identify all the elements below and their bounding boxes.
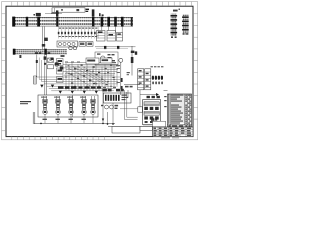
zone ticks bottom edge <box>12 137 105 140</box>
arrow on drop <box>102 119 104 122</box>
metering panel box <box>57 41 78 47</box>
charger winding row 1 <box>144 102 159 106</box>
bus A junction bar 4 <box>92 17 94 27</box>
drop cluster box 2 <box>107 31 116 42</box>
drops to ground run <box>103 90 128 124</box>
BOM description text dashes <box>171 95 184 124</box>
switch symbol S2 above bus <box>56 10 58 16</box>
diode blob row 2 <box>152 81 163 84</box>
drop cluster box 3 <box>117 33 123 42</box>
feeder drops bus A right section <box>102 27 122 33</box>
control mesh verticals <box>66 62 117 91</box>
ground run horizontal <box>34 122 115 124</box>
junction dots on ground run <box>40 123 114 125</box>
small marks above title block <box>151 118 157 121</box>
text marks below wire <box>125 86 133 88</box>
zone ticks left edge <box>2 14 6 131</box>
marks above charger box <box>147 96 160 98</box>
charger dark row 2 <box>144 116 158 119</box>
bus A junction bar 2 <box>37 17 40 27</box>
left feeder column small boxes <box>57 59 64 83</box>
zone ticks right edge <box>193 14 198 119</box>
incoming switch symbol S1 above bus <box>33 13 40 16</box>
bus A junction bar 1 <box>26 17 28 27</box>
starter unit 3 <box>69 96 74 114</box>
revision box 2 <box>140 126 153 130</box>
bus A junction bar 8 <box>121 17 124 27</box>
bus B (second busbar) <box>13 49 67 54</box>
components below aux panel <box>105 105 114 109</box>
drop cluster box 1 <box>97 31 106 42</box>
bus B end bar left <box>13 49 16 55</box>
right column drop <box>120 62 122 95</box>
bus A junction bar 6 <box>107 17 110 27</box>
feeder drop pair from bus A <box>43 27 45 50</box>
feeder chain below bus B <box>37 55 47 96</box>
mark inside label box <box>61 9 63 10</box>
label text right of box <box>86 9 89 12</box>
tiny labels left of column <box>117 68 120 83</box>
bus A (main MCC busbar) <box>13 17 134 26</box>
unit text labels <box>41 97 86 98</box>
feeder wire down to charger <box>131 46 133 76</box>
diagonal wire bundle in mesh <box>66 66 108 87</box>
fuse on right column <box>120 78 122 82</box>
wire run y46.8 <box>95 46 136 48</box>
title block <box>153 127 194 137</box>
title block text dashes <box>153 128 191 136</box>
unit motor marks <box>44 111 95 113</box>
CT cluster right of bus B <box>69 42 93 50</box>
right end component <box>131 51 137 55</box>
relay boxes in mesh <box>86 58 112 64</box>
wire to table <box>164 89 168 91</box>
charger bottom marks <box>145 121 159 123</box>
contact triangles <box>40 85 98 94</box>
comb text row 2 <box>59 35 98 38</box>
mesh bottom labels right <box>103 89 124 92</box>
white note box left of BOM <box>153 121 166 127</box>
mesh small text marks <box>65 62 120 91</box>
BOM table <box>168 94 192 127</box>
charger dark row 1 <box>144 107 158 110</box>
dark label text row in mesh <box>58 86 101 88</box>
instrument box <box>95 52 118 65</box>
aux panel box right of starters <box>104 93 132 103</box>
text below charger <box>143 126 152 127</box>
tiny print below frame <box>161 136 179 139</box>
coil symbol left <box>34 76 37 84</box>
switch symbol S3 above bus <box>92 9 95 16</box>
label box above bus A <box>52 8 85 12</box>
cable labels below box <box>43 119 86 120</box>
wire run left of charger <box>124 83 140 85</box>
bus A junction bar 3 <box>56 17 58 27</box>
fuse marks on drop pair <box>44 38 48 41</box>
blob on wire 1 <box>104 46 106 49</box>
rectifier stack columns <box>138 69 151 90</box>
small marks above bus right <box>99 13 104 16</box>
bus A end bar left <box>12 17 15 27</box>
control mesh horizontals dense <box>62 63 119 76</box>
comb fuse marks <box>58 32 96 34</box>
light wire y48.6 <box>96 48 128 50</box>
BOM row number column marks <box>168 95 169 124</box>
chain fuse <box>44 56 47 59</box>
diode blob row 1 <box>152 76 163 80</box>
BOM header row <box>168 125 192 127</box>
starter unit 5 <box>91 96 96 114</box>
mesh junction dots <box>65 71 114 87</box>
starter units outer box <box>38 95 98 117</box>
comb text row 1 <box>59 28 97 29</box>
isolator on feeder <box>131 57 134 63</box>
charger winding row 2 <box>144 111 159 115</box>
blob on wire 2 <box>117 46 119 49</box>
terminal row upper right <box>151 66 164 67</box>
instrument circle <box>101 56 105 60</box>
instrument marks <box>97 53 115 61</box>
bus A junction bar 7 <box>114 17 117 27</box>
underline below label box <box>45 12 62 14</box>
riser bus R2 (top right vertical) <box>182 15 189 35</box>
mesh scattered component marks <box>68 65 115 86</box>
starter unit 2 <box>56 96 61 114</box>
battery bars inside aux panel <box>105 95 120 101</box>
bus B junction bar <box>44 49 46 55</box>
wire into charger box with arrow <box>140 94 156 96</box>
zone ticks top edge <box>12 2 192 6</box>
corner wires bottom left of charger <box>125 90 138 120</box>
starter unit 4 <box>82 96 87 114</box>
left label text rows <box>20 101 31 104</box>
small box left of charger <box>138 107 143 112</box>
aux boxes near chain <box>48 58 54 62</box>
riser R1 label <box>173 10 178 12</box>
unit drops to ground run <box>45 114 93 123</box>
starter unit 1 <box>43 96 48 114</box>
feeder comb below bus A <box>59 27 99 39</box>
revision box 1 <box>112 126 140 133</box>
revision strip line <box>108 125 153 127</box>
meters inside panel <box>58 42 75 45</box>
battery charger box <box>143 100 161 125</box>
circle component top of right column <box>119 58 123 62</box>
outer margin line <box>2 2 198 140</box>
label left of feeder <box>127 72 130 75</box>
control mesh nested corner wires <box>37 58 120 91</box>
BOM right column marks <box>185 95 191 124</box>
bus A end bar right <box>131 17 133 26</box>
inner border frame <box>6 6 193 136</box>
bus A junction bar 5 <box>101 17 104 27</box>
riser bus R1 (top right vertical) <box>171 14 178 38</box>
ground run vertical pair <box>33 112 35 124</box>
small mark below bus B <box>19 55 21 58</box>
BOM row lines <box>168 96 192 125</box>
diagonal dark clusters in chain <box>51 55 65 69</box>
taps below bus B <box>35 52 50 54</box>
terminal marks between stack and table <box>164 96 166 107</box>
